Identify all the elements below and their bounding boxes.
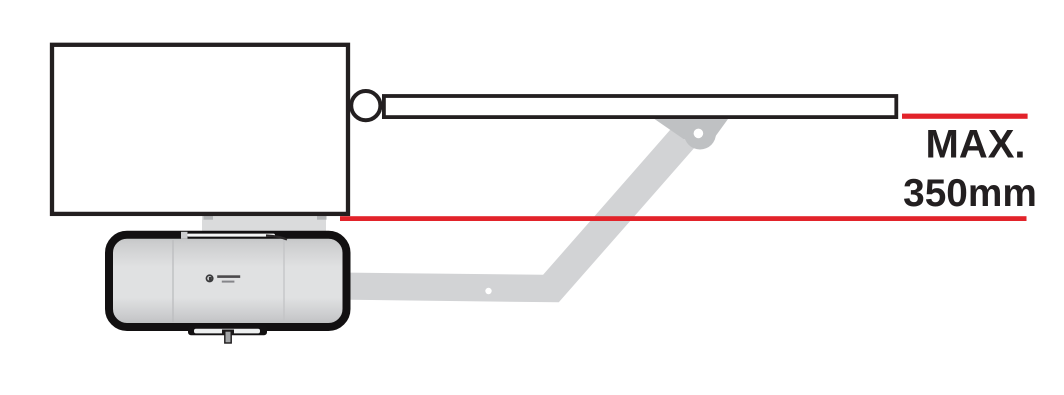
gate bracket lower boss [684,118,716,150]
logo text line 1 [217,275,240,278]
mounting tab right [317,214,327,220]
antenna pin [225,331,231,343]
motor bottom housing [188,326,267,336]
mounting tab left [204,214,214,220]
antenna pin base [222,330,234,335]
ceiling mounting plate [202,215,326,233]
red reference line upper [902,114,1028,119]
arm pivot hole [485,288,491,294]
svg-text:MAX.: MAX. [926,123,1026,167]
motor seam left [172,240,174,322]
logo text line 2 [222,281,235,283]
door leaf rectangle [52,45,348,214]
gate bracket hole [694,129,704,139]
motor bottom slit highlight [194,329,260,334]
red reference line lower [340,216,1027,221]
motor top slit highlight [187,234,275,237]
motor seam right [283,240,285,322]
gate arm bar [384,96,896,117]
pivot circle [351,91,380,120]
svg-text:350mm: 350mm [903,172,1037,215]
motor top curve detail [266,236,287,240]
logo roundel [206,274,214,282]
gate bracket (upper attachment) [655,119,729,139]
articulated arm (lower + diagonal segments) [350,119,702,302]
operator motor body [109,235,347,327]
motor top small tab [181,232,188,239]
